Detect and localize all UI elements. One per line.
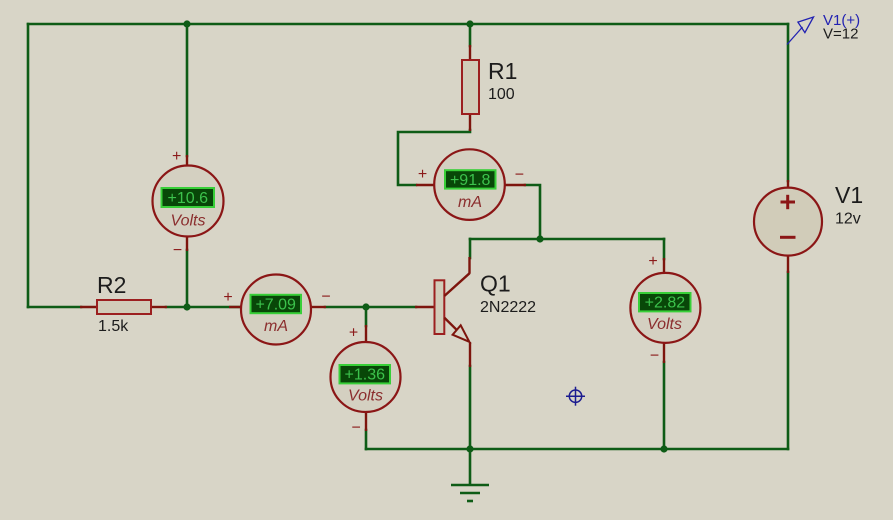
display: +10.6 [162,188,215,207]
wire: middle row left segment to R2 [28,306,81,309]
ground [451,449,489,501]
pin: voltmeter +10.6 bottom lead [186,236,188,251]
pin: voltmeter +1.36 bottom lead [365,412,367,431]
pin: ammeter +91.8 right lead [504,184,526,186]
wire: top rail from left corner to right corner [28,23,788,26]
svg-text:−: − [352,420,361,437]
wire: voltmeter +10.6 branch vertical (top rail down to meter) [186,24,189,156]
ammeter (collector current) reading +91.8 [416,149,526,220]
symbol: V1 plus [781,201,796,204]
body: ammeter +7.09 circle [241,275,311,345]
probe V1(+) [787,12,860,45]
svg-text:Volts: Volts [171,213,206,230]
junction: top rail / R1 branch [466,20,473,27]
wire: voltmeter +10.6 bottom to middle row [186,250,189,307]
junction: top rail / voltmeter +10.6 branch [183,20,190,27]
pin: R1 top lead [469,45,471,60]
junction: base node (ammeter out / voltmeter +1.36) [362,303,369,310]
pin: Q1 collector diagonal [444,273,469,296]
svg-text:+7.09: +7.09 [255,296,296,313]
battery V1 [754,180,863,273]
wire: right vertical rail to V1 top [787,24,790,181]
pin: voltmeter +2.82 top lead [663,258,665,274]
pin: Q1 collector vertical [468,257,470,274]
svg-text:−: − [650,348,659,365]
wire: R2 right side to node B junction [166,306,242,309]
display: +1.36 [340,365,391,383]
svg-text:1.5k: 1.5k [98,318,129,335]
pin: R2 left lead [80,306,97,308]
wire: ammeter +7.09 output to base node [325,306,416,309]
svg-text:V=12: V=12 [823,26,858,43]
pin: voltmeter +10.6 top lead [186,155,188,167]
junction: middle row node at R2 output [183,303,190,310]
wire: voltmeter +1.36 bottom to ground rail [365,430,368,449]
svg-text:R1: R1 [488,58,517,84]
pin: Q1 emitter vertical [469,342,471,367]
junction: ground rail / emitter+ground [466,445,473,452]
probe arrow head (open triangle) [798,17,814,33]
pin: ammeter +7.09 left lead [229,306,242,308]
resistor R2 [80,272,167,335]
svg-text:+: + [223,289,232,306]
body: ammeter +91.8 circle [434,149,505,220]
wire: voltmeter +2.82 bottom to ground rail [663,362,666,449]
svg-text:mA: mA [264,318,288,335]
body: R2 [97,300,151,314]
svg-text:+: + [172,148,181,165]
wire: R1 bottom elbow to ammeter +91.8 input [398,130,470,185]
voltmeter (base-emitter) reading +1.36 [331,325,401,437]
wire: V1 bottom down to ground rail [787,272,790,449]
svg-text:−: − [173,242,182,259]
wire: collector rail right end down to voltmeter +2.82 [663,239,666,259]
body: Q1 base bar [435,280,445,334]
pin: voltmeter +2.82 bottom lead [663,342,665,363]
svg-text:V1: V1 [835,182,863,208]
pin: Q1 base lead [415,306,435,308]
voltmeter (collector-emitter) reading +2.82 [630,253,700,365]
svg-text:12v: 12v [835,211,861,228]
svg-text:−: − [515,167,524,184]
body: voltmeter +10.6 circle [153,166,224,237]
display: +7.09 [251,295,302,313]
wire: emitter down to ground rail [469,366,472,449]
svg-text:2N2222: 2N2222 [480,299,536,316]
body: R1 [462,60,479,114]
svg-text:+: + [418,166,427,183]
display: +91.8 [445,170,496,188]
wire: ammeter +91.8 output elbow down to collector rail [525,185,540,239]
svg-text:−: − [321,289,330,306]
pin: ammeter +7.09 right lead [311,306,326,308]
pin: V1 top lead [787,180,789,189]
wire: ground rail horizontal [366,448,788,451]
body: voltmeter +2.82 circle [630,273,700,343]
transistor Q1 [415,257,536,367]
svg-text:+91.8: +91.8 [450,172,491,189]
body: voltmeter +1.36 circle [331,342,401,412]
resistor R1 [462,45,517,131]
svg-text:Q1: Q1 [480,271,511,297]
svg-text:+: + [648,253,657,270]
symbol: V1 minus [780,236,796,239]
pin: V1 bottom lead [787,255,789,273]
wire: left vertical rail [27,24,30,307]
svg-text:Volts: Volts [647,316,682,333]
svg-text:100: 100 [488,86,515,103]
body: V1 circle [754,188,822,256]
junction: ground rail / voltmeter +2.82 [660,445,667,452]
marker: origin crosshair [566,387,585,406]
pin: ammeter +91.8 left lead [416,184,435,186]
svg-text:+2.82: +2.82 [645,295,686,312]
voltmeter (base supply node) reading +10.6 [153,148,224,259]
wire: R1 branch from top rail [469,24,472,46]
wire: collector rail horizontal [470,238,664,241]
pin: R1 bottom lead [469,114,471,131]
wire: base node down to voltmeter +1.36 [365,307,368,326]
pin: Q1 emitter arrow (open) [453,325,470,342]
probe arrow line [787,27,803,45]
svg-text:R2: R2 [97,272,126,298]
pin: R2 right lead [151,306,167,308]
wire: collector riser [469,239,472,258]
svg-text:+: + [349,325,358,342]
pin: Q1 emitter diagonal [444,318,457,331]
display: +2.82 [639,293,691,311]
junction: collector rail / ammeter -91.8 branch [536,235,543,242]
svg-text:Volts: Volts [348,388,383,405]
svg-text:+10.6: +10.6 [168,190,209,207]
ammeter (base current) reading +7.09 [223,275,330,345]
pin: voltmeter +1.36 top lead [365,325,367,343]
svg-text:mA: mA [458,194,482,211]
svg-text:+1.36: +1.36 [345,367,386,384]
